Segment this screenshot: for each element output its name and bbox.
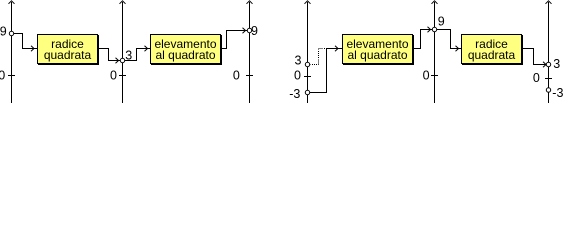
axis A6 (output axis, right group) [548, 2, 550, 103]
arrowhead of axis A5 [432, 1, 438, 4]
arrowhead of wire W8 [456, 46, 459, 51]
svg-text:-3: -3 [289, 87, 300, 101]
arrowhead of wire W9 [543, 62, 546, 67]
block B3 "elevamento al quadrato" [343, 35, 413, 64]
tick 0 on axis A3 [246, 75, 253, 77]
block B2 "elevamento al quadrato" [151, 35, 221, 64]
axis A3 (output axis, left group) [249, 2, 251, 103]
arrowhead of axis A1 [9, 1, 15, 4]
svg-text:0: 0 [110, 68, 117, 82]
arrowhead of axis A2 [120, 1, 126, 4]
arrowhead of wire W7 [428, 27, 431, 32]
axis A4 (input axis, right group) [307, 2, 309, 103]
svg-text:al quadrato: al quadrato [155, 48, 215, 62]
arrowhead of wire W1 [31, 46, 34, 51]
svg-text:0: 0 [533, 71, 540, 85]
wire W9: block B4 to axis A6 [522, 49, 547, 65]
wire W5 (dotted): axis A4 node 3 to wire W6 [310, 49, 327, 65]
wire W2: block B1 to axis A2 [98, 49, 121, 61]
svg-text:9: 9 [0, 25, 7, 39]
arrowhead of wire W4 [243, 28, 246, 33]
wire W3: axis A2 node 3 to block B2 [125, 49, 151, 61]
wire W1: node 9 on A1 to block B1 [14, 34, 38, 49]
node 9 on axis A3 [247, 28, 251, 32]
arrowhead of axis A3 [247, 1, 253, 4]
arrowhead of wire W6 [335, 46, 338, 51]
block B4 "radice quadrata" [462, 35, 522, 64]
wire W4: block B2 to axis A3 [221, 31, 248, 49]
svg-text:0: 0 [0, 68, 5, 82]
node -3 on axis A6 [546, 88, 550, 92]
block B1 "radice quadrata" [38, 35, 98, 64]
tick 0 on axis A1 [8, 75, 15, 77]
shadow of block B2 [151, 35, 222, 65]
node 3 on axis A6 [546, 62, 550, 66]
svg-text:quadrata: quadrata [44, 48, 92, 62]
svg-text:3: 3 [553, 57, 560, 71]
tick 0 on axis A5 [431, 75, 438, 77]
shadow of block B3 [343, 35, 414, 65]
svg-text:quadrata: quadrata [468, 48, 516, 62]
node -3 on axis A4 [305, 90, 309, 94]
node 9 on axis A1 [9, 31, 13, 35]
axis A1 (input axis, left group) [11, 2, 13, 103]
svg-text:-3: -3 [552, 86, 563, 100]
svg-text:3: 3 [125, 49, 132, 63]
arrowhead of wire W2 [116, 58, 119, 63]
arrowhead of wire W3 [145, 46, 148, 51]
axis A5 (intermediate axis, right group) [434, 2, 436, 103]
arrowhead of axis A6 [546, 1, 552, 4]
svg-text:9: 9 [438, 15, 445, 29]
tick 0 on axis A6 [545, 78, 552, 80]
wire W6: axis A4 node -3 to block B3 [310, 49, 343, 93]
tick 0 on axis A2 [119, 75, 126, 77]
wire W7: block B3 to axis A5 [413, 30, 433, 49]
svg-text:3: 3 [294, 54, 301, 68]
shadow of block B1 [38, 35, 99, 65]
tick 0 on axis A4 [304, 76, 311, 78]
node 3 on axis A2 [120, 58, 124, 62]
svg-text:al quadrato: al quadrato [347, 48, 407, 62]
arrowhead of axis A4 [305, 1, 311, 4]
node 9 on axis A5 [432, 27, 436, 31]
svg-text:0: 0 [294, 68, 301, 82]
svg-text:0: 0 [233, 68, 240, 82]
svg-text:0: 0 [423, 68, 430, 82]
shadow of block B4 [462, 35, 523, 65]
svg-text:9: 9 [251, 24, 258, 38]
node 3 on axis A4 [305, 62, 309, 66]
axis A2 (intermediate axis, left group) [122, 2, 124, 103]
wire W8: axis A5 node 9 to block B4 [437, 30, 462, 49]
